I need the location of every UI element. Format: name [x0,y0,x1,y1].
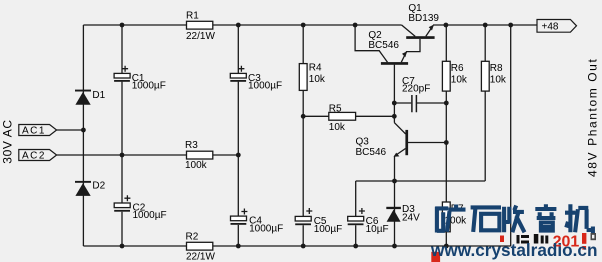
svg-text:10k: 10k [451,74,468,85]
wire Q2 base drop [393,65,395,123]
node D3 bottom [392,244,397,249]
svg-text:+48: +48 [542,22,559,33]
svg-text:R1: R1 [186,11,199,22]
node C3 top [236,23,241,28]
node C2 bottom [120,244,125,249]
svg-text:R8: R8 [490,63,503,74]
watermark red block [431,252,440,262]
svg-text:R6: R6 [451,63,464,74]
wire Q2 collector feed [355,25,387,62]
diode D2 [75,180,106,196]
wire C1 C2 vertical [121,25,123,246]
svg-text:D1: D1 [92,90,105,101]
watermark gray box [591,233,597,240]
transistor Q3 BC546 [356,130,409,158]
char ji [565,204,593,233]
resistor R3 [185,140,213,171]
wire C6 vertical [355,181,357,246]
wire left vertical with D1 D2 [82,25,84,246]
svg-text:30V AC: 30V AC [1,119,15,163]
svg-text:D2: D2 [92,180,105,191]
svg-text:24V: 24V [402,213,420,224]
diode D1 [75,90,106,105]
svg-text:10k: 10k [490,74,507,85]
watermark: big blue characters (stylized CJK shapes) [435,204,593,233]
svg-text:220pF: 220pF [402,84,430,95]
node N1 R4-R5-C5 [301,114,306,119]
svg-text:100µF: 100µF [314,224,343,235]
svg-text:1000µF: 1000µF [132,81,166,92]
node C1 top [120,23,125,28]
svg-text:22/1W: 22/1W [186,31,215,42]
watermark red fleck [500,236,504,243]
resistor R5 [329,103,356,133]
wire Q3 collector diagonal [394,123,405,134]
terminal AC2 [19,150,57,162]
capacitor C3 [230,66,282,92]
wire C3 C4 vertical [237,25,239,246]
watermark red exclamation [582,233,586,244]
wire R4 C5 vertical [302,25,304,246]
svg-text:BC546: BC546 [356,147,387,158]
transistor Q1 BD139 [406,3,439,39]
resistor R1 [186,11,215,42]
terminal +48 [537,20,577,33]
svg-text:48V Phantom Out: 48V Phantom Out [586,58,600,177]
resistor R2 [186,232,216,262]
node R3 right [236,153,241,158]
wire AC2 / R3 row [57,154,239,156]
svg-text:www.crystalradio.cn: www.crystalradio.cn [430,240,597,260]
node R8 top [483,23,488,28]
char kuang [435,205,465,233]
node R6 top [444,23,449,28]
wire Q2 emitter to Q1 base [401,39,420,62]
node C7 right [444,101,449,106]
wire Q3 base row [408,142,446,144]
node Q2 collector tap [353,23,358,28]
wire Q1 emitter diagonal [426,25,433,36]
wire C7 row [394,102,446,104]
svg-text:BD139: BD139 [408,13,439,24]
svg-text:1000µF: 1000µF [248,81,282,92]
resistor R4 [299,63,326,91]
capacitor C2 [114,195,166,221]
wire node row C6/D3/R7/R8 [356,180,486,182]
svg-text:AC2: AC2 [22,151,46,162]
terminal AC1 [19,125,57,137]
capacitor C4 [231,209,284,235]
resistor R8 [481,61,507,91]
node C1-C2 mid [120,153,125,158]
capacitor C6 [348,208,389,235]
node Q3 base [444,140,449,145]
transistor Q2 BC546 [368,30,408,65]
wire R5 row [303,115,394,117]
svg-text:10µF: 10µF [366,224,389,235]
svg-text:R4: R4 [309,63,322,74]
node N3 emitter-D3 [392,179,397,184]
node N2 R5 right [392,114,397,119]
svg-text:R5: R5 [329,103,342,114]
wire output right drop [510,25,512,246]
capacitor C1 [114,66,166,92]
char shou [504,206,524,233]
node C5 bottom [301,244,306,249]
wire AC1 lead [57,129,84,131]
wire Q1 collector diagonal [402,25,416,36]
svg-text:BC546: BC546 [368,40,399,51]
svg-text:10k: 10k [329,122,346,133]
node R7 bottom [444,244,449,249]
wire Q3 emitter diagonal [395,149,406,157]
node output drop [508,23,513,28]
wire top rail left (raw supply) [83,24,401,26]
node C6 bottom [353,244,358,249]
node C4 bottom [236,244,241,249]
wire Q3 emitter / D3 vertical [394,156,396,246]
svg-text:R2: R2 [186,232,199,243]
node AC1 junction [81,128,86,133]
char yin [535,204,556,230]
wire R8 vertical [484,25,486,181]
svg-text:10k: 10k [309,74,326,85]
zener diode D3 24V [386,204,420,224]
resistor R6 [442,61,468,91]
wire R6 R7 vertical (line A) [445,25,447,246]
svg-text:100k: 100k [185,160,208,171]
capacitor C5 [295,208,342,235]
resistor R7 (mostly hidden by watermark) [442,202,467,232]
svg-text:22/1W: 22/1W [186,252,215,262]
wire bottom ground rail [83,245,510,247]
svg-text:1000µF: 1000µF [249,223,283,234]
svg-text:R3: R3 [185,140,198,151]
svg-text:AC1: AC1 [22,126,46,137]
node R4 top [301,23,306,28]
svg-text:1000µF: 1000µF [133,210,167,221]
watermark small black glyphs [517,234,549,244]
wire top rail right (output to +48) [433,24,537,26]
capacitor C7 [402,76,430,113]
node N2 C7 left [392,101,397,106]
char shi [471,207,501,232]
